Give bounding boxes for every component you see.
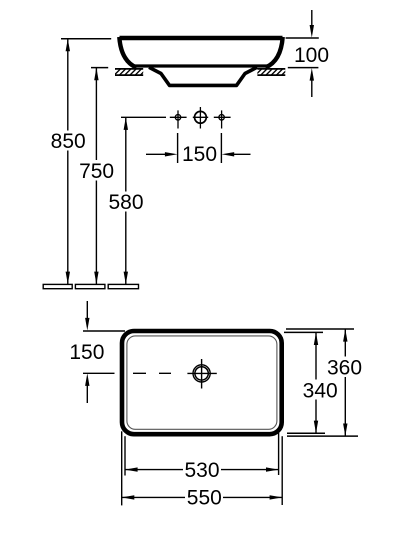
dim 360: bottom arrow — [343, 424, 347, 437]
tap hole middle (large circle with crosshair) — [195, 107, 207, 129]
dim 750: bottom arrow — [94, 272, 98, 285]
dim 150 plan: lower arrow and tail — [85, 373, 89, 403]
svg-text:150: 150 — [69, 341, 104, 364]
svg-text:550: 550 — [187, 487, 222, 510]
floor symbol: three base plates — [43, 284, 138, 288]
dim 550: right extension line — [281, 436, 283, 505]
basin flange underside line — [134, 64, 268, 67]
dim 580: bottom arrow — [124, 272, 128, 285]
dim 150 elevation: right arrow (pointing left) — [222, 152, 251, 156]
dim 550: right arrow — [270, 495, 283, 499]
dim 530: dimension line (split at label) — [125, 469, 279, 471]
dim 340: dimension line (split at label) — [315, 332, 317, 433]
countertop section left (hatched) — [115, 68, 143, 75]
svg-text:360: 360 — [327, 357, 362, 380]
svg-text:340: 340 — [303, 379, 338, 402]
dim 580: dimension line (split at label) — [125, 117, 127, 284]
dim 150 elevation: left arrow (pointing right) — [146, 152, 178, 156]
dim 550: dimension line (split at label) — [122, 496, 283, 498]
dim 100: bottom extension line — [288, 67, 319, 69]
tap hole right (small circle with crosshair) — [219, 110, 224, 128]
dim 580: top arrow — [124, 117, 128, 130]
tap holes horizontal centerline (dashed run) — [121, 116, 231, 118]
dim 340: bottom arrow — [314, 421, 318, 434]
basin bowl underside profile — [149, 67, 257, 85]
tap hole left (small circle with crosshair) — [175, 110, 180, 128]
dim 340: bottom extension line — [287, 432, 325, 434]
svg-text:750: 750 — [79, 160, 114, 183]
dim 340: top extension line (inner) — [284, 331, 323, 333]
dim 340: top arrow — [314, 332, 318, 345]
dim 360: dimension line (split at label) — [344, 329, 346, 436]
svg-text:100: 100 — [294, 44, 329, 67]
svg-text:530: 530 — [184, 459, 219, 482]
dim 850: top arrow — [66, 39, 70, 52]
dim 150 plan: top extension line — [83, 330, 125, 332]
dim 150 elevation: left extension line — [177, 133, 179, 163]
dim 750: top arrow — [94, 68, 98, 81]
svg-text:580: 580 — [108, 191, 143, 214]
dim 100: upper arrow and tail — [310, 10, 314, 38]
drain hole double circle with crosshair — [187, 359, 216, 389]
basin left side wall — [119, 37, 136, 68]
basin rim top line — [120, 36, 283, 40]
svg-text:850: 850 — [51, 130, 86, 153]
dim 530: right extension line — [278, 433, 280, 475]
plan horizontal centerline (dashed) — [133, 372, 171, 374]
dim 150 plan: centerline extension line — [83, 372, 115, 374]
dim 360: bottom extension line — [287, 435, 358, 437]
dim 530: right arrow — [266, 467, 279, 471]
dim 850: bottom arrow — [66, 272, 70, 285]
dim 100: top extension line — [286, 37, 319, 39]
basin outer outline (thick rounded rect) — [122, 331, 282, 434]
dim 360: top arrow — [343, 329, 347, 342]
dim 530: left arrow — [125, 467, 138, 471]
countertop section right (hatched) — [257, 68, 285, 75]
dim 750: dimension line (split at label) — [95, 68, 97, 285]
dim 530: left extension line — [124, 436, 126, 475]
dim 750: extension line — [91, 67, 108, 69]
dim 550: left arrow — [122, 495, 135, 499]
dim 360: top extension line (outer) — [286, 328, 354, 330]
dim 150 elevation: right extension line — [220, 133, 222, 163]
basin inner rim line (thin rounded rect) — [127, 336, 277, 429]
basin right side wall — [266, 37, 283, 68]
dim 100: lower arrow and tail — [310, 68, 314, 97]
dim 850: top extension line — [61, 38, 111, 40]
dim 150 plan: upper arrow and tail — [85, 301, 89, 331]
dim 550: left extension line — [121, 431, 123, 505]
dim 850: dimension line (split at label) — [67, 39, 69, 285]
svg-text:150: 150 — [182, 143, 217, 166]
